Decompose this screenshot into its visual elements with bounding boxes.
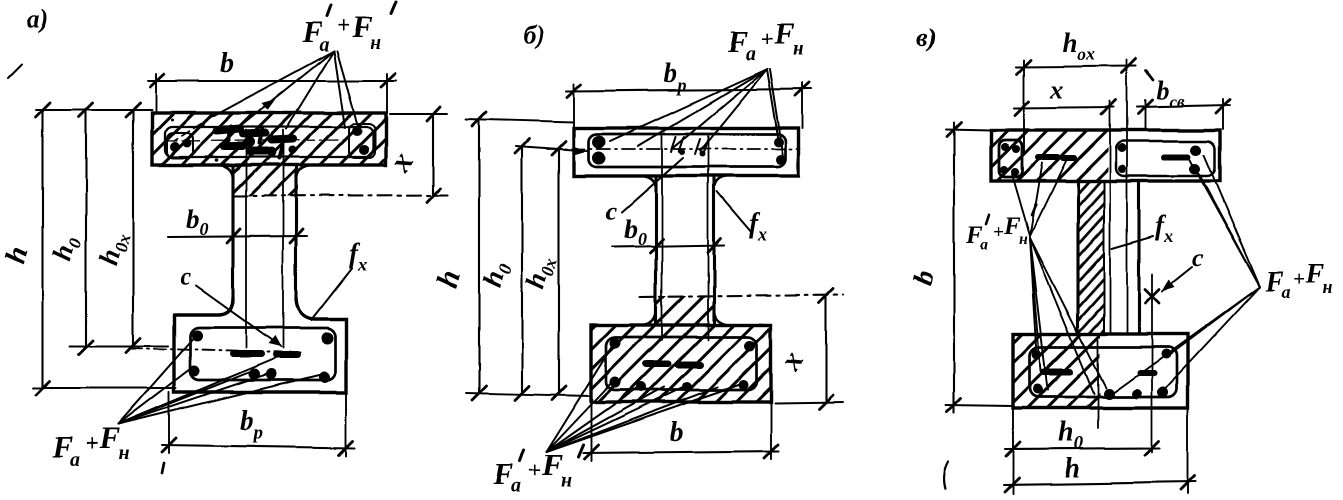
b dimension bottom	[590, 404, 592, 461]
b0 dimension line	[612, 245, 724, 247]
left dim stack: top ext	[466, 119, 574, 122]
x dimension	[1014, 107, 1114, 108]
h_ox dimension	[1016, 66, 1136, 67]
svg-text:в): в)	[916, 23, 936, 52]
bottom stirrup	[1030, 347, 1177, 397]
left rebar dots	[170, 142, 180, 152]
svg-text:x: x	[1049, 75, 1063, 104]
svg-text:F: F	[98, 420, 120, 455]
top steel label Fa+Fn	[726, 16, 804, 65]
fan lines from Fa right	[1204, 155, 1260, 287]
svg-text:a: a	[319, 34, 329, 56]
web wall left	[231, 165, 234, 303]
bottom steel label F'a+F'n	[492, 447, 572, 497]
extension verticals from top dims	[1023, 60, 1025, 152]
hatched top flange (compression)	[152, 113, 386, 165]
svg-text:a: a	[980, 237, 988, 254]
inner extension verticals through flange	[245, 130, 247, 348]
web walls	[1076, 181, 1079, 334]
arrowhead on fan	[262, 99, 276, 110]
svg-text:b: b	[220, 48, 234, 79]
h0x dimension vertical	[132, 110, 134, 345]
svg-text:c: c	[180, 264, 191, 291]
b dimension line	[148, 80, 396, 82]
c leader	[1162, 267, 1192, 291]
bottom stirrup	[190, 328, 335, 380]
c leader	[622, 158, 683, 212]
bottom flange outline	[174, 298, 346, 392]
h dimension bottom	[1187, 410, 1189, 494]
svg-text:+: +	[85, 431, 98, 456]
flange dash-dot centerline	[166, 140, 348, 141]
svg-text:F: F	[1305, 259, 1325, 290]
fillet web-left to flange	[218, 165, 233, 180]
centroid dash-dot line to steel	[130, 348, 300, 353]
dash-dot centerline through top stirrup	[547, 148, 800, 150]
svg-text:+: +	[760, 27, 773, 52]
web hatched band	[1078, 181, 1104, 334]
svg-text:F: F	[773, 16, 795, 51]
svg-text:a: a	[511, 475, 521, 497]
stray tick top-left	[8, 64, 22, 78]
F_a+F_n label right	[1265, 259, 1333, 302]
top flange stirrup	[165, 127, 373, 157]
svg-text:н: н	[370, 32, 381, 54]
fan lines to bottom steel	[118, 339, 193, 424]
svg-text:н: н	[1323, 277, 1333, 297]
fillets top	[641, 176, 656, 190]
bottom flange hatched left part	[1013, 334, 1100, 408]
bottom rebar dots	[1032, 349, 1042, 359]
top right stirrup	[1116, 141, 1215, 176]
svg-text:b: b	[670, 417, 684, 448]
top stirrup	[589, 134, 786, 167]
b_sv dimension	[1137, 105, 1230, 107]
fan lines from F'a	[1012, 174, 1030, 236]
h0 dimension vertical	[85, 110, 87, 347]
svg-text:+: +	[1294, 267, 1306, 291]
web walls	[654, 176, 657, 325]
right rebar dots	[774, 137, 784, 147]
svg-text:a: a	[70, 449, 80, 471]
svg-text:a: a	[1282, 282, 1291, 302]
dashed leader continuing to left rebar	[174, 116, 213, 141]
steel centroid vertical with x mark	[1151, 274, 1153, 452]
centroid thick dashes	[646, 361, 668, 368]
top flange thick dashes left	[1038, 154, 1058, 160]
web wall right	[294, 165, 297, 300]
neutral axis dash line	[640, 295, 843, 297]
c leader	[196, 286, 281, 347]
fan lines to bottom steel	[546, 346, 612, 452]
centroid thick dashes	[233, 351, 261, 358]
stray paren bottom left	[944, 462, 948, 489]
bottom stirrup	[606, 337, 757, 390]
top flange outline	[574, 128, 799, 176]
top flange thick dash right	[1164, 154, 1188, 160]
b0 dimension line	[168, 236, 307, 237]
h0 vertical	[521, 146, 523, 393]
fx leader	[1112, 236, 1153, 248]
svg-text:н: н	[561, 469, 572, 491]
fan lines from Fa to top steel	[610, 69, 767, 141]
left rebar dots	[593, 136, 606, 149]
svg-text:б): б)	[524, 21, 546, 50]
fx leader	[717, 192, 752, 233]
x dimension right	[825, 296, 827, 402]
web inner verticals	[661, 136, 663, 340]
h0x/h0/h top extension line	[36, 109, 152, 111]
bottom rebar dots	[192, 331, 203, 342]
svg-text:F: F	[541, 447, 563, 482]
fx leader	[311, 268, 352, 320]
h vertical	[478, 119, 480, 393]
svg-text:c: c	[606, 198, 617, 225]
top left stirrup	[999, 140, 1022, 177]
svg-text:+: +	[993, 222, 1004, 243]
bp dimension top	[566, 89, 812, 91]
fillet web-right to flange	[296, 165, 312, 180]
svg-text:h: h	[1064, 453, 1080, 484]
top steel label F'a+F'n	[301, 9, 381, 56]
h bottom extension	[33, 387, 176, 389]
svg-text:н: н	[1019, 231, 1028, 248]
h0 bottom extension	[70, 345, 168, 347]
scan specks	[201, 123, 204, 126]
top left rebar dots	[1001, 143, 1009, 151]
arrow leader from left to top steel	[516, 146, 588, 151]
svg-text:н: н	[793, 38, 804, 60]
F'a+F'n label left	[965, 213, 1028, 254]
hatched web stub	[656, 296, 714, 325]
bottom flange outline	[1013, 334, 1188, 408]
stray mark	[162, 463, 164, 473]
b extension verticals	[155, 74, 157, 113]
hatched web stub below flange	[233, 165, 298, 196]
fillets bottom	[641, 310, 656, 325]
h0 dimension bottom	[1012, 410, 1014, 494]
right rebar box	[349, 124, 375, 158]
h0x vertical	[558, 148, 560, 393]
b dimension left	[953, 122, 955, 413]
svg-text:а): а)	[27, 4, 49, 33]
top right rebar dots	[1118, 144, 1127, 153]
bottom rebar dots	[610, 338, 621, 349]
center steel marks	[671, 137, 708, 154]
svg-text:+: +	[528, 458, 541, 483]
center heavy steel cluster	[217, 129, 293, 151]
x dimension right	[390, 113, 447, 115]
svg-text:a: a	[745, 43, 755, 65]
right rebar dots	[352, 126, 362, 136]
bp dimension	[168, 392, 170, 453]
stray tick	[1146, 71, 1153, 80]
h dimension vertical	[42, 110, 44, 388]
bottom thick dashes	[1044, 369, 1070, 376]
top flange hatched left part	[991, 130, 1108, 181]
bottom steel label Fa+Fn	[51, 420, 129, 471]
inner vertical in bottom flange	[1097, 340, 1099, 428]
hatched bottom flange	[591, 325, 771, 402]
fan lines to top steel	[214, 51, 334, 116]
svg-text:н: н	[118, 442, 129, 464]
svg-text:c: c	[1192, 245, 1203, 272]
neutral axis dash line	[233, 195, 447, 196]
svg-text:+: +	[337, 13, 350, 38]
left rebar box	[167, 133, 193, 158]
bottom ext	[466, 393, 591, 396]
top flange outline	[991, 130, 1220, 181]
